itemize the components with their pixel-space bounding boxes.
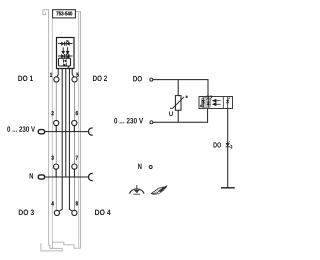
terminal 3 number [51,156,53,160]
terminal 5 circle [72,77,77,82]
N line right clamp [89,173,93,180]
module outline left profile with top hook [43,10,49,25]
L line right clamp [89,128,93,135]
N plug connector [38,175,44,179]
terminal 3 circle [54,164,59,169]
label DO 3 [19,210,34,216]
terminal 8 circle [72,210,77,215]
N line [45,176,89,178]
gray contact rail left column [55,82,57,210]
LED D2 (row A right, points left) [66,42,69,46]
LED D3 (row B left, points right) [61,54,64,58]
thyristor T1 (down) [202,98,204,108]
wire pin to terminal 1 [57,69,58,77]
terminal 7 number [76,156,78,160]
DO wire to optocoupler [153,80,208,97]
terminal 5 number [76,73,78,77]
varistor RV1 branch wire [177,80,179,123]
module inner wall left [51,18,53,243]
LED D1 (row A left, points right) [61,42,64,46]
terminal 6 stub to L line [73,126,75,132]
output LED D7 [226,143,230,146]
wire N tap (box to N line) [65,69,67,132]
LED block internal down arrow right [66,47,68,53]
terminal 1 circle [54,77,59,82]
icon: screwdriver blade [151,187,164,194]
wire L-N link [65,132,67,178]
varistor RV1 diagonal [170,97,184,108]
LED row B rail [58,55,73,57]
LED row B arrows [66,53,68,55]
LED D5 inside inner box (points left) [64,59,67,62]
label DO 1 [18,76,33,82]
label DO 2 [93,76,107,82]
terminal 2 circle [54,120,59,125]
LED row A arrows [66,41,68,43]
L supply plug connector [38,130,44,134]
terminal 3 stub to N line [55,169,57,177]
230V terminal circle [150,121,153,124]
LED indicator box U1 [57,38,75,69]
terminal 4 number [51,201,54,205]
varistor asterisk [186,95,188,98]
opto light arrows [213,99,221,102]
thyristor T2 (up) [207,98,209,108]
wire pin to terminal 5 [72,69,74,77]
N terminal circle right [149,166,152,169]
label 0...230V left [7,126,35,132]
opto LED (in right section) [227,97,229,109]
LED D6 at inner box bottom (points right) [63,63,66,66]
label N right [138,164,141,169]
terminal 2 stub to L line [55,126,57,132]
terminal 6 circle [72,120,77,125]
triac section shaded pad [202,97,211,107]
module outline bottom foot [49,242,81,248]
terminal 4 circle [54,210,59,215]
terminal 7 circle [72,164,77,169]
wire DO3 vertical run (box to terminal 4) [59,69,62,212]
label DO 4 [95,210,111,216]
LED row A rail [58,43,73,45]
part number label box 753-540 [53,10,76,18]
module inner wall right [78,12,80,249]
module outline left edge [48,10,50,246]
LED D4 (row B right, points left) [66,54,69,58]
terminal 7 stub to N line [73,169,75,177]
L supply line [45,131,89,133]
DO terminal circle [150,78,153,81]
gray contact rail right column [74,82,76,210]
label DO (output) [213,142,221,147]
optocoupler / solid-state switch box U2 [199,97,233,109]
varistor RV1 body [175,96,181,111]
label U (varistor) [169,111,173,116]
label DO (top terminal) [133,76,142,82]
output wire down from box [227,109,229,188]
terminal 6 number [76,111,78,115]
230V wire to optocoupler [153,109,208,123]
opto divider [222,97,224,109]
terminal 8 number [76,201,78,205]
LED block internal down arrow left [62,47,64,53]
wire DO4 vertical run (box to terminal 8) [69,69,72,212]
label N left [30,173,33,178]
module outline bottom-left hook [41,243,62,251]
terminal 1 number [50,73,52,77]
module outline right edge [75,12,80,249]
icon: insertion arc with arrow [130,189,144,194]
termination bar [221,187,235,189]
label 0...230V right [114,118,143,124]
terminal 2 number [51,111,53,115]
inner box of LED block [59,58,71,66]
